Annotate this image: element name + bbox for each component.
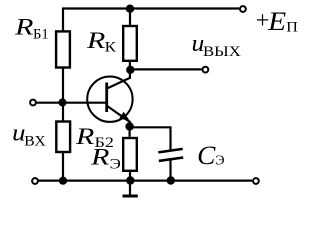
node R_Э bottom rail dot — [126, 176, 134, 184]
resistor R_К — [123, 26, 137, 61]
svg-text:Э: Э — [215, 154, 224, 169]
node base junction dot — [58, 98, 66, 106]
resistor R_Э — [123, 138, 137, 171]
label u_ВЫХ — [192, 31, 241, 60]
label R_К — [86, 28, 117, 55]
svg-text:ВЫХ: ВЫХ — [203, 44, 241, 60]
transistor VT (NPN) — [87, 77, 132, 128]
resistor R_Б2 — [56, 122, 70, 153]
wire capacitor bottom lead — [169, 160, 171, 181]
wire base node down to R_Б2 — [62, 103, 64, 123]
svg-text:E: E — [267, 7, 286, 36]
wire top rail from R_B1 corner to +Ep terminal — [63, 9, 239, 32]
capacitor C_Э bottom plate — [159, 158, 183, 161]
svg-text:R: R — [86, 28, 106, 54]
wire R_Э bottom lead — [129, 172, 131, 181]
terminal input bottom (open circle) — [32, 178, 38, 184]
label R_Э — [90, 145, 121, 173]
terminal +Ep (open circle top right) — [240, 6, 246, 12]
svg-text:Э: Э — [110, 157, 121, 173]
label R_Б2 — [75, 124, 114, 151]
ground — [123, 181, 138, 197]
wire output to u_ВЫХ terminal — [133, 68, 202, 70]
wire R_Б1 bottom lead to base node — [62, 68, 64, 103]
resistor R_Б1 — [56, 31, 70, 67]
terminal output bottom right (open circle) — [253, 178, 259, 184]
node emitter dot — [125, 122, 133, 130]
wire base from input terminal to transistor base bar — [37, 102, 107, 104]
wire bottom rail — [38, 180, 252, 182]
svg-text:R: R — [90, 145, 110, 171]
svg-text:ВХ: ВХ — [24, 134, 46, 150]
svg-text:Б1: Б1 — [33, 26, 49, 42]
svg-text:R: R — [14, 14, 34, 40]
wire R_К bottom lead to collector — [129, 61, 131, 79]
label C_Э — [197, 141, 224, 170]
capacitor C_Э top plate — [158, 149, 182, 153]
wire emitter node down to R_Э — [129, 127, 131, 137]
node collector dot — [126, 66, 134, 74]
svg-text:П: П — [286, 20, 298, 36]
label u_ВХ — [12, 121, 46, 150]
svg-text:К: К — [105, 39, 117, 55]
node capacitor bottom rail dot — [167, 176, 175, 184]
wire emitter to capacitor branch — [133, 127, 171, 150]
terminal input top (open circle) — [30, 100, 36, 106]
svg-text:C: C — [197, 141, 216, 170]
label +E_П — [256, 7, 299, 36]
label R_Б1 — [14, 14, 49, 42]
wire R_Б2 bottom lead — [62, 152, 64, 181]
terminal u_ВЫХ (open circle) — [203, 67, 209, 73]
node top rail / R_К dot — [126, 5, 134, 13]
wire R_К top stub — [129, 9, 131, 26]
node R_Б2 bottom rail dot — [59, 177, 67, 185]
